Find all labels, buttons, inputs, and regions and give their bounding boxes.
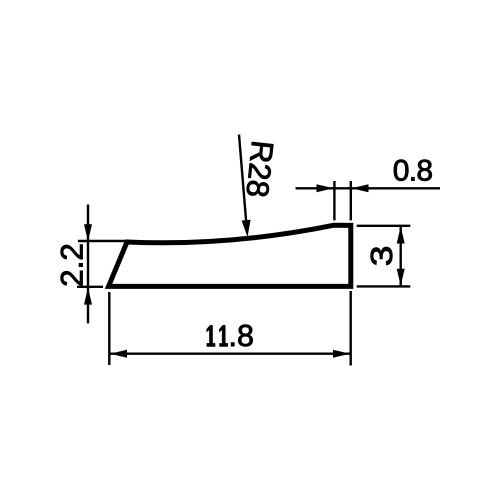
profile outline (109, 225, 351, 286)
dimension 0.8 : left extension line (333, 181, 335, 220)
dimension 3 : dimension line (400, 226, 402, 287)
dimension 0.8 : right-pointing arrowhead (317, 184, 334, 192)
dimension 11.8 : left extension line (108, 292, 110, 365)
dimension 2.2 : down arrowhead (84, 224, 92, 241)
dimension 3 : down arrowhead (397, 269, 405, 286)
dimension 11.8 : text (207, 325, 215, 346)
dimension 0.8 : dimension line (296, 187, 441, 189)
dimension 11.8 : right-pointing arrowhead (333, 350, 350, 358)
dimension 0.8 : left-pointing arrowhead (352, 184, 369, 192)
dimension 2.2 : top extension line (78, 240, 126, 242)
dimension 11.8 : left-pointing arrowhead (110, 350, 127, 358)
leader arrowhead (242, 220, 251, 237)
dimension 2.2 : bottom extension line (77, 286, 103, 288)
leader line R28 (239, 135, 246, 223)
dimension 3 : up arrowhead (397, 227, 405, 244)
dimension 3 : top extension line (357, 225, 411, 227)
dimension 2.2 : up arrowhead (84, 288, 92, 305)
svg-text:0.8: 0.8 (393, 154, 433, 187)
svg-text:R28: R28 (239, 139, 280, 199)
dimension 0.8 : right extension line (350, 181, 352, 220)
svg-text:2.2: 2.2 (53, 243, 89, 287)
svg-text:3: 3 (364, 245, 399, 266)
dimension 3 : bottom extension line (357, 285, 411, 287)
dimension 2.2 : dimension line (87, 205, 89, 324)
dimension 11.8 : dimension line (109, 353, 350, 355)
dimension 11.8 : right extension line (350, 291, 352, 366)
svg-text:.8: .8 (229, 319, 254, 353)
